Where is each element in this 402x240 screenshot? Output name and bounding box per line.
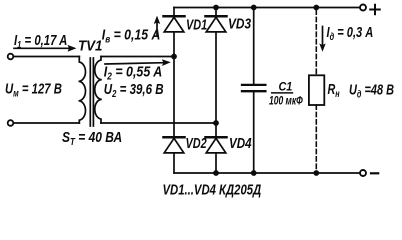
label VD4 — [229, 135, 252, 152]
svg-text:VD1...VD4 КД205Д: VD1...VD4 КД205Д — [163, 181, 262, 198]
arrow I2 current — [105, 59, 171, 66]
node B junction dot (secondary bottom to right column) — [213, 120, 219, 126]
transformer TV1 core — [90, 58, 93, 126]
label VD2 — [186, 134, 207, 151]
terminal input bottom — [8, 120, 14, 126]
wire secondary bottom — [101, 122, 216, 124]
caption VD1...VD4 KD205D — [163, 181, 262, 198]
wire primary bottom — [13, 122, 79, 124]
node top rail load junction dot — [313, 5, 319, 11]
label St = 40 VA — [62, 129, 122, 147]
svg-text:VD3: VD3 — [228, 15, 252, 31]
node top rail C1 junction dot — [251, 5, 257, 11]
terminal output minus — [360, 170, 366, 176]
label I2 = 0,55 A — [104, 64, 162, 82]
svg-text:VD4: VD4 — [229, 135, 252, 152]
label 100 mkF — [269, 95, 303, 108]
transformer TV1 secondary winding — [95, 57, 102, 124]
label Ud = 48 V — [349, 81, 394, 100]
wire right column VD3 to node B — [215, 32, 217, 123]
wire left bridge column top — [173, 8, 175, 15]
diode VD2 — [164, 137, 185, 153]
node A junction dot (secondary top to left column) — [171, 54, 177, 60]
wire left column node A to VD2 — [173, 57, 175, 137]
label VD3 — [228, 15, 252, 31]
wire dashed load top — [315, 10, 317, 75]
svg-text:Iд = 0,3 A: Iд = 0,3 A — [327, 23, 374, 42]
capacitor C1 plates — [242, 85, 265, 91]
svg-text:Iв = 0,15 A: Iв = 0,15 A — [102, 26, 161, 44]
wire right bridge column top — [215, 8, 217, 15]
svg-text:C1: C1 — [279, 81, 293, 94]
terminal input top — [8, 54, 14, 60]
svg-text:I1 = 0,17 A: I1 = 0,17 A — [14, 31, 67, 50]
wire capacitor column bottom — [253, 92, 255, 173]
wire left column VD2 to bottom rail — [173, 153, 175, 173]
transformer TV1 primary winding — [79, 57, 86, 124]
node bottom rail C1 junction dot — [251, 170, 257, 176]
wire capacitor column top — [253, 8, 255, 84]
svg-text:Uд =48 В: Uд =48 В — [349, 81, 394, 100]
label Id = 0,3 A — [327, 23, 374, 42]
resistor Rn — [309, 75, 324, 105]
label C1 — [279, 81, 293, 94]
wire secondary top — [101, 56, 174, 58]
minus sign — [371, 172, 378, 174]
wire dashed load bottom — [315, 105, 317, 173]
label Um = 127 V — [5, 80, 62, 99]
label Rn — [328, 80, 341, 99]
svg-text:SТ = 40 ВА: SТ = 40 ВА — [62, 129, 122, 147]
label VD1 — [186, 16, 207, 33]
svg-text:100 мкФ: 100 мкФ — [269, 95, 303, 108]
diode VD1 — [164, 16, 185, 32]
wire right column VD4 to bottom rail — [215, 153, 217, 173]
node bottom rail load junction dot — [313, 170, 319, 176]
plus sign — [370, 5, 380, 15]
arrow Id load current (down) — [319, 27, 325, 52]
svg-text:VD2: VD2 — [186, 134, 207, 151]
label Iv = 0,15 A — [102, 26, 161, 44]
wire top rail — [174, 7, 360, 9]
node top rail VD3 junction dot — [213, 5, 219, 11]
wire right column node B to VD4 — [215, 123, 217, 136]
arrow I1 current — [14, 45, 77, 52]
diode VD4 — [206, 137, 227, 153]
svg-text:I2 = 0,55 A: I2 = 0,55 A — [104, 64, 162, 82]
node bottom rail VD4 junction dot — [213, 170, 219, 176]
svg-text:TV1: TV1 — [78, 38, 103, 55]
arrow Iv diode current (up) — [154, 16, 160, 36]
wire primary top — [13, 56, 79, 58]
wire left column VD1 to node A — [173, 32, 175, 57]
label TV1 — [78, 38, 103, 55]
svg-text:VD1: VD1 — [186, 16, 207, 33]
terminal output plus — [360, 5, 366, 11]
wire bottom rail — [174, 172, 360, 174]
svg-text:Rн: Rн — [328, 80, 341, 99]
svg-text:Uм = 127 В: Uм = 127 В — [5, 80, 62, 99]
svg-text:U2 = 39,6 В: U2 = 39,6 В — [104, 81, 164, 100]
label I1 = 0,17 A — [14, 31, 67, 50]
diode VD3 — [206, 16, 227, 32]
label U2 = 39,6 V — [104, 81, 164, 100]
label C1 underline — [271, 92, 293, 94]
